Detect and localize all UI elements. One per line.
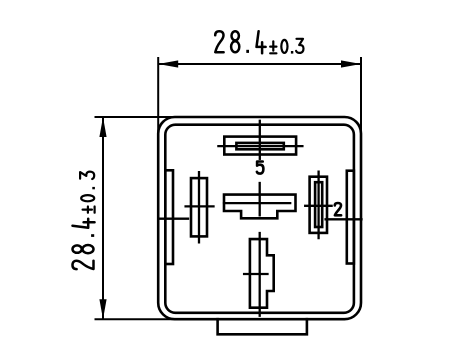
terminal 2 blade bbox=[315, 182, 322, 227]
terminal 2 vertical center line bbox=[317, 172, 319, 238]
left terminal vertical center line bbox=[198, 172, 200, 242]
terminal 5 outer slot bbox=[224, 137, 296, 155]
top dimension line bbox=[158, 63, 361, 65]
top dimension extension line left bbox=[157, 57, 159, 140]
bottom terminal vertical center line bbox=[259, 233, 261, 316]
left dimension line bbox=[102, 117, 104, 319]
relay body outer outline bbox=[158, 117, 361, 319]
left side slot center line bbox=[158, 218, 188, 220]
top dimension right arrowhead bbox=[341, 60, 361, 67]
right side slot bbox=[347, 171, 354, 264]
left dimension text 28.4 (rotated) bbox=[73, 219, 95, 269]
left terminal horizontal center line bbox=[186, 205, 214, 207]
terminal 5 horizontal center line bbox=[218, 145, 302, 147]
left terminal slot bbox=[191, 178, 207, 236]
terminal 2 horizontal center line bbox=[305, 205, 331, 207]
terminal 5 vertical center line bbox=[259, 121, 261, 159]
top dimension tolerance ±0.3 bbox=[270, 39, 303, 54]
terminal 2 label bbox=[335, 203, 341, 215]
top dimension extension line right bbox=[360, 57, 362, 140]
left dimension bottom arrowhead bbox=[99, 299, 106, 319]
left dimension top arrowhead bbox=[99, 117, 106, 137]
left dimension tolerance ±0.3 (rotated) bbox=[80, 172, 95, 213]
center terminal horizontal center line bbox=[224, 202, 290, 204]
top dimension text 28.4 bbox=[215, 31, 265, 53]
center terminal vertical center line bbox=[259, 183, 261, 215]
center terminal stepped slot bbox=[224, 195, 296, 219]
left side slot bbox=[165, 170, 173, 264]
terminal 5 label bbox=[257, 162, 264, 174]
relay body inner outline bbox=[165, 125, 354, 313]
left dimension extension line bottom bbox=[95, 318, 187, 320]
left dimension extension line top bbox=[95, 116, 187, 118]
top dimension left arrowhead bbox=[158, 60, 178, 67]
bottom terminal horizontal center line bbox=[244, 273, 267, 275]
mounting tab at bottom bbox=[218, 319, 307, 334]
right side slot center line bbox=[326, 218, 362, 220]
terminal 2 outer slot bbox=[310, 177, 327, 233]
bottom terminal stepped slot bbox=[250, 239, 274, 308]
terminal 5 blade bbox=[236, 143, 283, 149]
